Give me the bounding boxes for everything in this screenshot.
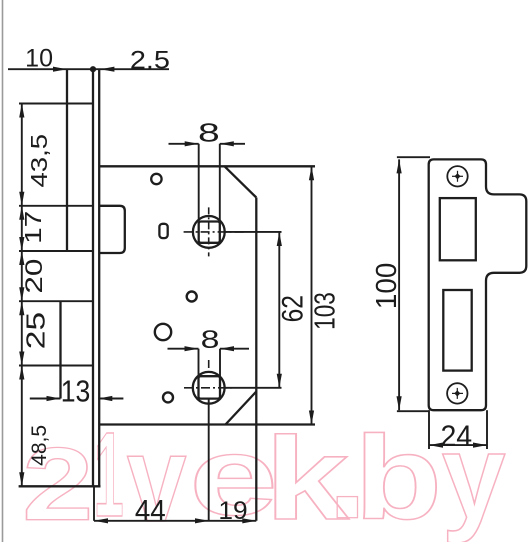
svg-text:13: 13 [61,375,91,409]
tick 17/20 [19,250,93,252]
top chamfer [225,166,257,197]
62 arrows [277,232,282,246]
svg-text:2.5: 2.5 [130,45,170,74]
lower spindle center line down [208,399,210,521]
lower spindle circle [193,372,225,404]
svg-text:103: 103 [310,292,341,330]
profile line lower [59,301,61,398]
13 arrows [47,396,61,401]
svg-text:19: 19 [218,497,247,524]
13 dim line left [30,398,61,400]
faceplate left line [92,69,94,486]
lower 8 dim line [168,348,199,350]
hole middle [187,292,197,302]
svg-text:44: 44 [135,495,166,528]
dimension labels [19,44,472,528]
upper 8 dim line [169,143,199,145]
upper spindle circle [193,216,225,248]
lower cutout [443,290,471,371]
hole lower small [163,392,173,402]
faceplate right line [98,69,100,486]
tick 43,5/17 [19,205,93,207]
103 arrows [309,166,314,180]
24 arrows [429,443,443,448]
100 arrows [397,159,402,173]
lower spindle ext to 62 [225,387,282,389]
24 dim [428,410,430,449]
bottom chamfer [226,392,257,425]
faceplate bottom cap [19,485,101,487]
svg-text:100: 100 [370,263,403,309]
svg-text:62: 62 [275,295,309,322]
44/19 dim line [94,520,256,522]
hole top-left [151,174,161,184]
svg-text:k: k [265,412,350,542]
tick 43,5 top [19,103,93,105]
upper 8 arrows [185,141,199,146]
screw diamonds [455,173,461,179]
svg-text:8: 8 [198,119,220,148]
tick 25/48,5 [19,365,93,367]
tick 20/25 [19,300,93,302]
hole left big [155,324,171,340]
slot [159,224,167,238]
44 left ext [93,487,95,521]
svg-text:43,5: 43,5 [27,134,52,188]
svg-text:24: 24 [440,421,472,454]
body right edge / 19 extension [255,198,257,521]
44/19 arrows [94,518,108,523]
upper spindle ext to 62 [225,231,282,233]
latch bolt [100,206,125,253]
lower 8 arrows [185,346,199,351]
screw hole top [447,166,467,186]
chain arrows [19,104,24,118]
lower crosshair [184,360,233,388]
body top edge [99,165,315,167]
2.5 arrow [100,67,114,72]
screw hole bottom [447,383,467,403]
upper cutout [440,198,476,260]
svg-text:20: 20 [19,259,47,294]
lower 8 ext lines [198,349,200,377]
upper spindle square [199,222,220,243]
watermark 21vek.by [22,406,505,542]
svg-text:25: 25 [22,312,50,349]
100 dim [398,159,400,410]
lower spindle square [199,376,221,398]
plate outline [429,159,527,410]
dot between 10 and 2.5 [90,66,96,72]
62 dim line [278,232,280,388]
103 dim line [311,166,313,424]
gray left border line [2,0,4,542]
profile line upper [66,69,68,251]
chain dim vertical [21,104,23,487]
13 dim line right [98,398,123,400]
svg-text:48,5: 48,5 [27,425,51,466]
upper 8 ext lines [198,144,200,222]
body bottom edge [100,423,315,425]
dim line 10/2.5 [8,68,169,70]
10 arrow [53,67,67,72]
svg-text:17: 17 [20,211,46,244]
filled elements: arrowheads, dot, screw diamonds [19,66,487,523]
svg-text:8: 8 [201,326,220,353]
svg-text:10: 10 [25,44,53,72]
upper crosshair [184,207,246,256]
